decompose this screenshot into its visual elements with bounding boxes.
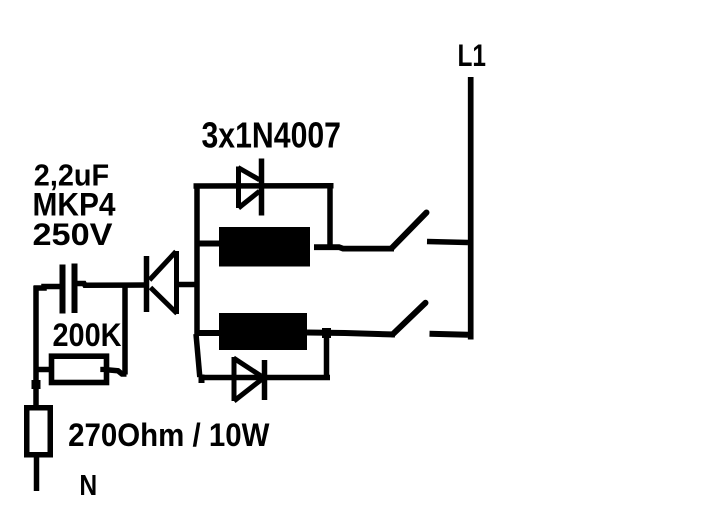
svg-text:3x1N4007: 3x1N4007 [202,115,342,156]
svg-text:200K: 200K [53,317,122,353]
wire 200K branch vertical [122,285,128,375]
component block (black box) 1 [219,227,310,267]
svg-text:N: N [79,470,97,502]
wire box2 right stub to switch [307,333,395,335]
diode D1 (top, pointing right) [238,159,262,216]
wire capacitor right lead to D2 [77,284,148,286]
diode D3 (bottom, pointing right) [234,357,265,401]
wire bridge left rail [194,184,200,336]
switch S1 blade [392,213,427,248]
wire bottom loop horizontal [202,375,330,381]
junction on left rail [32,380,41,389]
wire box1 left stub [196,241,219,247]
capacitor C1 right plate [72,264,78,314]
diode D2 (middle, pointing left) [147,251,178,314]
svg-text:250V: 250V [33,216,113,252]
svg-text:L1: L1 [458,37,487,73]
wire R1 left stub [36,367,49,373]
wire bottom loop right vertical [324,333,330,378]
wire box2 left stub [196,330,219,336]
wire L1 rail (vertical) [468,77,474,340]
wire R2 bottom lead to N [34,454,40,491]
wire S1 right contact [427,242,468,243]
switch S2 blade [393,303,426,335]
resistor R1 200K (box) [52,356,107,382]
wire capacitor left lead [34,287,61,289]
junction dot inside R1 right edge [100,367,105,372]
svg-text:270Ohm / 10W: 270Ohm / 10W [68,417,270,453]
resistor R2 270Ohm (vertical box) [27,408,51,455]
component block (black box) 2 [219,313,307,350]
wire S2 right contact [430,334,469,335]
wire left rail (N branch vertical) [33,286,39,406]
wire D2 to bridge rail [177,282,197,288]
wire bridge left slant [196,334,200,377]
wire box1 right stub to switch [314,247,394,248]
wire bridge top [194,183,334,189]
wire bridge right rail top [327,184,333,246]
junction box2 stub / bottom loop [322,328,331,338]
capacitor C1 left plate [60,265,66,314]
wire R1 right link [107,370,127,374]
junction bottom loop left end [199,375,205,384]
